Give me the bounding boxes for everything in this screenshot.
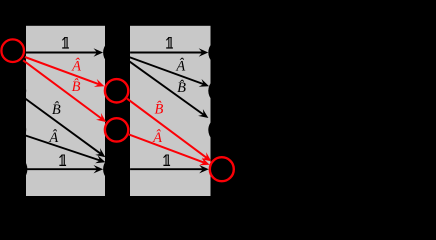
node final (red ring) [210, 157, 234, 181]
svg-text:B̂: B̂ [52, 102, 61, 118]
label 1 bottom band1 [59, 155, 66, 167]
node row2 right [208, 77, 235, 104]
wire arrow B-hat black band1 [24, 97, 101, 153]
svg-text:Â: Â [71, 58, 81, 75]
wire arrow identity bottom band1 [26, 168, 97, 170]
wire arrow B-hat red band1 [23, 60, 101, 118]
wire arrow A-hat black band1 [26, 136, 100, 161]
gray band step 1 [26, 26, 105, 196]
svg-text:B̂: B̂ [177, 80, 186, 96]
node A-path mid (red ring) [105, 79, 128, 102]
svg-text:Â: Â [175, 58, 185, 75]
wire arrow B-hat red band2 [127, 99, 207, 158]
wire arrow A-hat black band2 [129, 57, 203, 84]
label 1 bottom band2 [163, 155, 170, 167]
svg-text:Â: Â [48, 129, 58, 146]
node row3 left (hidden) [0, 116, 26, 143]
wire arrow B-hat black band2 [128, 60, 204, 114]
wire arrow A-hat red band2 [129, 134, 204, 162]
svg-text:B̂: B̂ [72, 79, 81, 95]
node top right [208, 39, 235, 66]
node start (red ring) [1, 39, 24, 62]
label 1 top band1 [62, 37, 69, 49]
node bottom left (hidden) [0, 155, 27, 183]
node top middle [103, 39, 130, 66]
label 1 top band2 [166, 37, 173, 49]
svg-text:B̂: B̂ [154, 101, 163, 117]
wire arrow identity top band2 [130, 52, 202, 54]
wire arrow A-hat red band1 [25, 57, 99, 84]
wire arrow identity top band1 [26, 52, 97, 54]
node bottom middle [103, 156, 130, 183]
node row3 right [208, 116, 235, 143]
node row2 left (hidden) [0, 77, 26, 104]
gray band step 2 [130, 26, 211, 196]
wire arrow identity bottom band2 [130, 168, 203, 170]
node B-path mid (red ring) [105, 118, 128, 141]
svg-text:Â: Â [152, 129, 162, 146]
